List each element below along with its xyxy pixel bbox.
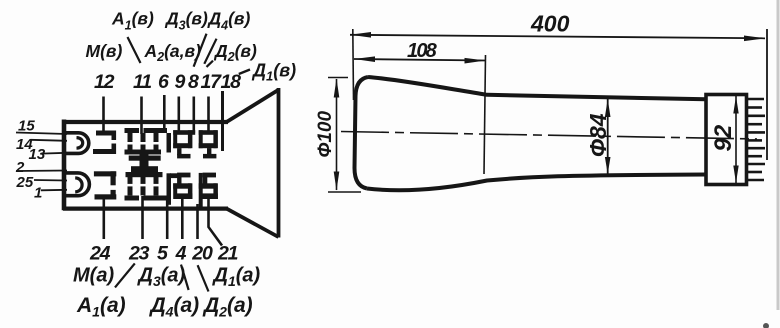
svg-text:Д2(а): Д2(а) <box>202 294 253 320</box>
leader pin17 slash <box>207 61 214 67</box>
envelope bottom edge <box>63 207 228 211</box>
pin 6 lead <box>163 95 166 131</box>
dim 108 line <box>354 59 486 61</box>
pin 20 lead <box>196 204 199 239</box>
dim 400 line <box>350 35 765 39</box>
svg-text:11: 11 <box>133 71 151 93</box>
screen edge <box>277 88 281 238</box>
svg-text:23: 23 <box>128 243 150 265</box>
envelope top edge <box>63 120 228 124</box>
leader pin4 to D4(a) <box>181 265 189 290</box>
bulb face left edge <box>355 77 369 189</box>
svg-text:400: 400 <box>530 11 570 37</box>
shared anode A2 link bars <box>129 156 161 173</box>
page right faint edge <box>777 0 780 310</box>
base pins <box>747 99 766 180</box>
dim F100 bottom tick <box>328 191 361 193</box>
modulator M(a) bracket <box>94 171 116 199</box>
leader pin23 to A1(a) <box>115 263 135 287</box>
cone bottom slant <box>227 209 279 237</box>
svg-text:Д4(в): Д4(в) <box>207 9 251 33</box>
deflection plates D3/D4 (gun b) <box>173 130 195 158</box>
svg-text:9: 9 <box>175 71 186 93</box>
dim 92 bottom arrow <box>733 166 738 184</box>
anode A1/A2 comb (gun a) <box>125 172 178 205</box>
svg-text:М(в): М(в) <box>86 41 123 61</box>
heater (gun b) <box>65 133 89 154</box>
svg-text:92: 92 <box>710 124 737 151</box>
pin 24 lead <box>103 198 106 239</box>
pin 21 lead <box>209 199 223 246</box>
leader pin18 to D1(b) dash <box>239 70 250 75</box>
envelope left edge <box>62 120 67 211</box>
svg-text:12: 12 <box>94 71 115 93</box>
dim 108 right arrow <box>465 58 486 64</box>
deflection plates D2 (gun a) <box>199 173 218 207</box>
leader A1(b) to pin 11 <box>128 37 141 63</box>
heater (gun b) inner loop <box>77 138 83 149</box>
dim 400 right arrow <box>744 36 765 42</box>
bulb bottom edge <box>367 175 706 191</box>
svg-text:5: 5 <box>157 243 169 265</box>
dim 400 right extension line <box>766 29 768 160</box>
base rectangle <box>706 95 747 185</box>
svg-text:24: 24 <box>89 243 111 265</box>
dim 108 right extension line <box>484 55 486 174</box>
dim F100 bottom arrow <box>334 172 340 191</box>
svg-text:Ф100: Ф100 <box>315 111 336 158</box>
dim F100 line <box>336 79 338 190</box>
svg-text:А1(а): А1(а) <box>76 294 126 320</box>
pin 14 lead <box>31 140 68 141</box>
dim 400 left arrow <box>350 32 371 38</box>
dim F84 bottom arrow <box>605 157 611 174</box>
dim 92 top arrow <box>733 96 738 114</box>
svg-text:13: 13 <box>29 146 46 163</box>
heater (gun a) <box>65 173 89 196</box>
pin 23 lead <box>141 196 144 239</box>
svg-text:Д4(а): Д4(а) <box>149 294 200 320</box>
pin 25 lead <box>34 179 67 182</box>
svg-text:Д1(в): Д1(в) <box>251 61 296 84</box>
bulb top edge <box>368 77 706 99</box>
deflection plates D2 (gun b) <box>199 130 218 158</box>
pin 15 lead <box>16 133 67 135</box>
leader pin8 to D2(b) <box>204 39 216 64</box>
svg-text:17: 17 <box>201 71 223 93</box>
dim 108 left arrow <box>354 56 375 62</box>
svg-text:4: 4 <box>175 243 187 265</box>
pin 4 lead <box>181 199 184 239</box>
heater (gun a) inner loop <box>75 178 82 192</box>
svg-text:А2(а,в): А2(а,в) <box>144 41 202 64</box>
pin 13 lead <box>41 152 67 155</box>
pin 1 lead <box>41 189 67 192</box>
dim F100 top tick <box>328 77 348 79</box>
pin 12 lead <box>102 97 105 133</box>
svg-text:15: 15 <box>18 118 35 135</box>
dim F100 top arrow <box>334 79 340 98</box>
svg-text:Д3(а): Д3(а) <box>137 265 186 290</box>
svg-text:108: 108 <box>407 40 438 62</box>
cone top slant <box>227 90 280 123</box>
svg-text:Д3(в): Д3(в) <box>164 9 208 33</box>
dim F84 top arrow <box>605 99 611 117</box>
pin 17 lead <box>207 97 210 132</box>
svg-text:8: 8 <box>188 71 199 93</box>
page corner dot <box>763 323 769 328</box>
leader pin20 to D2(a) <box>198 265 209 291</box>
leader D3(b) chevron <box>194 34 207 67</box>
pin 9 lead <box>178 97 181 132</box>
dim 400 left extension line <box>352 29 355 100</box>
svg-text:18: 18 <box>221 71 242 93</box>
pin 5 lead <box>166 196 169 239</box>
deflection plate D1 (gun b) / pin 18 lead <box>221 91 224 151</box>
pin 11 lead <box>140 97 143 135</box>
dim 92 line <box>735 96 737 183</box>
svg-text:Д2(в): Д2(в) <box>213 41 257 64</box>
axis center line <box>341 132 757 140</box>
svg-text:Д1(а): Д1(а) <box>212 265 261 290</box>
svg-text:6: 6 <box>158 71 169 93</box>
pin 8 lead <box>193 97 196 134</box>
svg-text:25: 25 <box>16 174 34 191</box>
svg-text:21: 21 <box>217 243 238 265</box>
svg-text:Ф84: Ф84 <box>585 113 611 157</box>
dim F84 line <box>607 99 609 174</box>
svg-text:М(а): М(а) <box>73 265 114 287</box>
deflection plates D3/D4 (gun a) <box>173 173 192 199</box>
svg-text:А1(в): А1(в) <box>111 9 154 33</box>
modulator M(b) bracket <box>93 131 116 155</box>
svg-text:20: 20 <box>191 243 213 265</box>
svg-text:1: 1 <box>34 185 42 202</box>
pin 2 lead <box>16 170 67 173</box>
anode A1/A2 comb (gun b) <box>125 128 172 157</box>
